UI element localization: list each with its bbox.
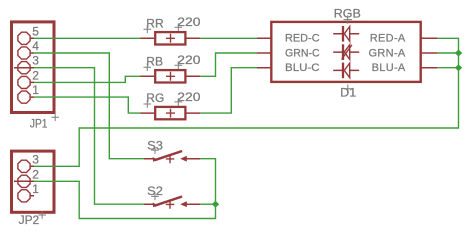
svg-text:GRN-C: GRN-C (285, 47, 320, 59)
svg-text:D1: D1 (340, 86, 356, 100)
svg-text:JP1: JP1 (30, 116, 48, 130)
svg-text:1: 1 (32, 182, 39, 196)
svg-text:RB: RB (146, 54, 163, 68)
svg-text:4: 4 (32, 39, 39, 53)
svg-text:RR: RR (146, 16, 164, 30)
svg-text:S2: S2 (147, 184, 163, 198)
svg-text:S3: S3 (147, 139, 163, 153)
svg-text:220: 220 (177, 15, 201, 29)
svg-text:RG: RG (146, 91, 164, 105)
svg-text:220: 220 (177, 90, 201, 104)
svg-text:2: 2 (32, 167, 39, 181)
svg-text:RED-C: RED-C (285, 33, 320, 45)
svg-text:BLU-A: BLU-A (372, 62, 406, 74)
svg-text:GRN-A: GRN-A (369, 47, 406, 59)
svg-text:RGB: RGB (334, 6, 361, 20)
svg-text:5: 5 (32, 24, 39, 38)
svg-text:1: 1 (32, 83, 39, 97)
svg-text:2: 2 (32, 68, 39, 82)
svg-text:3: 3 (32, 152, 39, 166)
svg-text:RED-A: RED-A (370, 33, 406, 45)
svg-text:BLU-C: BLU-C (285, 62, 320, 74)
svg-text:3: 3 (32, 54, 39, 68)
svg-text:JP2: JP2 (19, 213, 40, 227)
svg-text:220: 220 (177, 53, 201, 67)
